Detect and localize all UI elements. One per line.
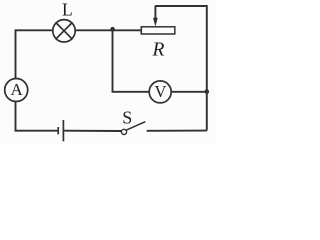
svg-text:S: S <box>122 107 132 127</box>
svg-text:R: R <box>152 39 165 60</box>
svg-text:V: V <box>154 82 166 101</box>
svg-text:L: L <box>62 0 73 19</box>
svg-text:A: A <box>10 80 23 99</box>
